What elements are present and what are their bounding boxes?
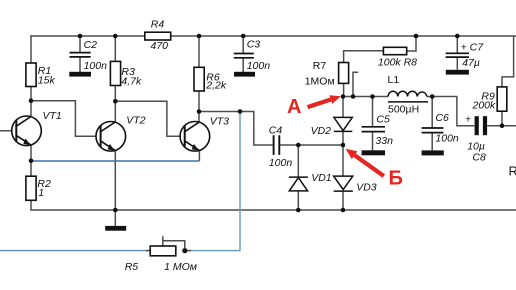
capacitor C5 [362, 127, 385, 132]
wire : VD1 top stub [297, 145, 299, 177]
svg-text:1: 1 [38, 187, 44, 199]
svg-text:C2: C2 [84, 39, 98, 51]
diode VD3 [334, 176, 353, 191]
wire : R9 bottom to output node [501, 111, 503, 126]
wire : R9 top up to rail [502, 36, 514, 87]
svg-text:47µ: 47µ [462, 57, 480, 69]
wire : blue wire R5 left to left edge [0, 250, 146, 252]
diode VD2 [334, 117, 352, 131]
wire : node A down to VD2 [342, 97, 344, 118]
svg-text:VD2: VD2 [311, 125, 332, 137]
wire : R3 bottom to VT2 collector [114, 86, 116, 123]
svg-text:L1: L1 [388, 74, 400, 86]
resistor R9 [497, 87, 507, 111]
node : VT1 emitter [29, 158, 34, 163]
wire : VT3 emitter down to blue emitter wire [198, 151, 200, 161]
capacitor C3 [234, 54, 254, 58]
resistor R8 [383, 47, 406, 54]
wire : R5 left terminal dark stub [146, 250, 151, 252]
node : R6 on rail [197, 34, 202, 39]
svg-text:4,7k: 4,7k [121, 75, 142, 87]
svg-text:100n: 100n [247, 60, 271, 72]
svg-text:R7: R7 [313, 60, 327, 72]
node : VT2 emitter on ground rail [113, 208, 118, 213]
svg-text:100n: 100n [269, 157, 293, 169]
wire : C6 lower stub to ground [431, 133, 433, 150]
svg-text:100n: 100n [84, 60, 108, 72]
wire : rail corner down to R1 top [30, 35, 32, 63]
node : VT3 collector [197, 109, 202, 114]
diode VD1 [289, 177, 308, 191]
resistor R4 [145, 32, 171, 40]
svg-text:15k: 15k [38, 74, 56, 86]
svg-text:VT3: VT3 [210, 116, 229, 128]
wire : C5 lower stub to ground [372, 132, 374, 150]
wire : output node to right edge [487, 125, 516, 127]
ground for C3 [234, 72, 255, 77]
wire : VT3 collector node right to C4 [199, 112, 273, 146]
svg-text:1 МОм: 1 МОм [164, 261, 197, 273]
wire : VT2 emitter down to ground rail [114, 151, 116, 210]
capacitor C2 [70, 53, 91, 57]
node : VT1 collector [29, 98, 34, 103]
wire : VT1 emitter down to emitter node [30, 145, 32, 161]
wire : R8 right terminal up to rail [407, 36, 416, 51]
wire : R7 top up and right to R8 [344, 51, 384, 63]
inductor L1 [388, 91, 428, 102]
node : R9 bottom output [500, 123, 505, 128]
wire : emitter node down to R2 top [30, 161, 32, 176]
wire : R1 bottom to VT1 collector [30, 87, 32, 118]
resistor R5 (variable, rheostat) [150, 246, 176, 256]
svg-text:VD3: VD3 [356, 182, 377, 194]
node : C7 on rail [455, 34, 460, 39]
wire : C2 upper stub [79, 36, 81, 52]
wire : VD3 bottom to ground rail [342, 191, 344, 210]
svg-text:VT1: VT1 [43, 110, 62, 122]
wire : VT1 base lead to left edge [0, 130, 17, 132]
resistor R1 [26, 63, 36, 87]
node : R8 on rail [414, 34, 419, 39]
wire : node B down to VD3 [342, 145, 344, 176]
wire : VD2 cathode down to node B [342, 131, 344, 145]
node : C3 on rail [241, 34, 246, 39]
wire : C3 lower stub to ground [242, 58, 244, 72]
wire : R2 bottom to ground rail [30, 200, 32, 210]
node : C5 on node A wire [370, 94, 375, 99]
wire : R7 wiper tap down to node A wire [352, 72, 358, 96]
resistor R7 (vertical, with tap) [339, 63, 349, 84]
svg-text:470: 470 [151, 40, 169, 52]
node : VD1 on ground rail [296, 208, 301, 213]
wire : VD1 bottom to ground rail [297, 191, 299, 210]
ground for C2 [69, 72, 91, 77]
svg-text:C3: C3 [247, 39, 261, 51]
svg-text:200k: 200k [472, 99, 497, 111]
wire : ground symbol stub below rail [114, 210, 116, 226]
svg-text:C6: C6 [435, 112, 449, 124]
svg-text:2,2k: 2,2k [205, 80, 227, 92]
svg-text:10µ: 10µ [467, 140, 485, 152]
svg-text:33n: 33n [375, 135, 393, 147]
wire : VT2 collector node to VT3 base [115, 101, 185, 136]
wire : R5 wiper tap [163, 236, 185, 248]
node : R7 wiper on node A wire [351, 94, 356, 99]
svg-text:500µH: 500µH [388, 104, 419, 116]
wire : R6 top stub [198, 36, 200, 67]
node B junction [341, 143, 346, 148]
resistor R6 [194, 67, 204, 91]
node : R3 on rail [113, 34, 118, 39]
resistor R3 [110, 61, 120, 85]
svg-text:+: + [465, 114, 471, 126]
transistor VT2 [96, 122, 126, 152]
resistor R2 [26, 176, 36, 200]
wire : R7 bottom to node A [343, 83, 345, 96]
wire : node A horizontal to L1 [343, 96, 388, 98]
svg-text:C8: C8 [472, 152, 486, 164]
svg-text:R5: R5 [125, 261, 139, 273]
ground for C5 [362, 150, 385, 155]
capacitor C4 (coupling) [274, 135, 280, 155]
svg-text:R: R [509, 164, 516, 179]
svg-text:100n: 100n [435, 133, 459, 145]
wire : teal wire VT3 collector node down to R5 [186, 112, 240, 251]
node : teal tap on collector wire [238, 109, 243, 114]
wire : R6 bottom to VT3 collector [198, 91, 200, 123]
wire : VT1 collector node to VT2 base [31, 101, 101, 137]
wire : C2 lower stub to ground [79, 58, 81, 73]
wire : C5 upper stub [372, 97, 374, 127]
wire : L1 right to C6 node to C8 [427, 97, 475, 126]
wire : R3 top stub [114, 36, 116, 61]
svg-text:VD1: VD1 [311, 172, 331, 184]
node : VD1 tap after C4 [296, 143, 301, 148]
node A junction [341, 94, 346, 99]
svg-text:R4: R4 [151, 18, 165, 30]
wire : top supply rail left segment [30, 35, 145, 37]
svg-text:А: А [287, 96, 301, 118]
svg-text:Б: Б [389, 168, 403, 190]
capacitor C8 (electrolytic, series) [475, 116, 479, 135]
capacitor C6 [422, 128, 444, 133]
svg-text:1МОм: 1МОм [305, 75, 335, 87]
node : VT2 collector [113, 99, 118, 104]
transistor VT1 [12, 116, 42, 146]
svg-text:VT2: VT2 [126, 115, 145, 127]
wire : top supply rail right segment (after R4) [171, 35, 516, 37]
node : R5 right terminal [182, 248, 187, 253]
wire : C4 output to node B horizontal [280, 144, 343, 146]
svg-text:+ C7: + C7 [461, 41, 485, 53]
wire : bottom ground rail [30, 209, 516, 211]
ground symbol (bar under rail) [105, 226, 126, 231]
wire : C3 upper stub [242, 36, 244, 53]
wire : C7 upper stub [456, 36, 458, 53]
svg-text:100k R8: 100k R8 [378, 57, 417, 69]
ground for C7 [446, 70, 469, 75]
node : C2 on rail [78, 34, 83, 39]
ground for C6 [422, 150, 444, 155]
node : L1 right / C6 [430, 94, 435, 99]
wire : C6 upper stub [431, 97, 433, 128]
transistor VT3 [180, 122, 210, 152]
wire : C7 lower stub to ground [456, 58, 458, 70]
wire : blue emitter feedback wire VT1 to VT3 [31, 160, 199, 162]
node : VD3 on ground rail [341, 208, 346, 213]
svg-text:C4: C4 [269, 124, 283, 136]
wire : R5 right terminal dark stub [185, 250, 191, 252]
capacitor C7 (electrolytic) [446, 53, 469, 57]
